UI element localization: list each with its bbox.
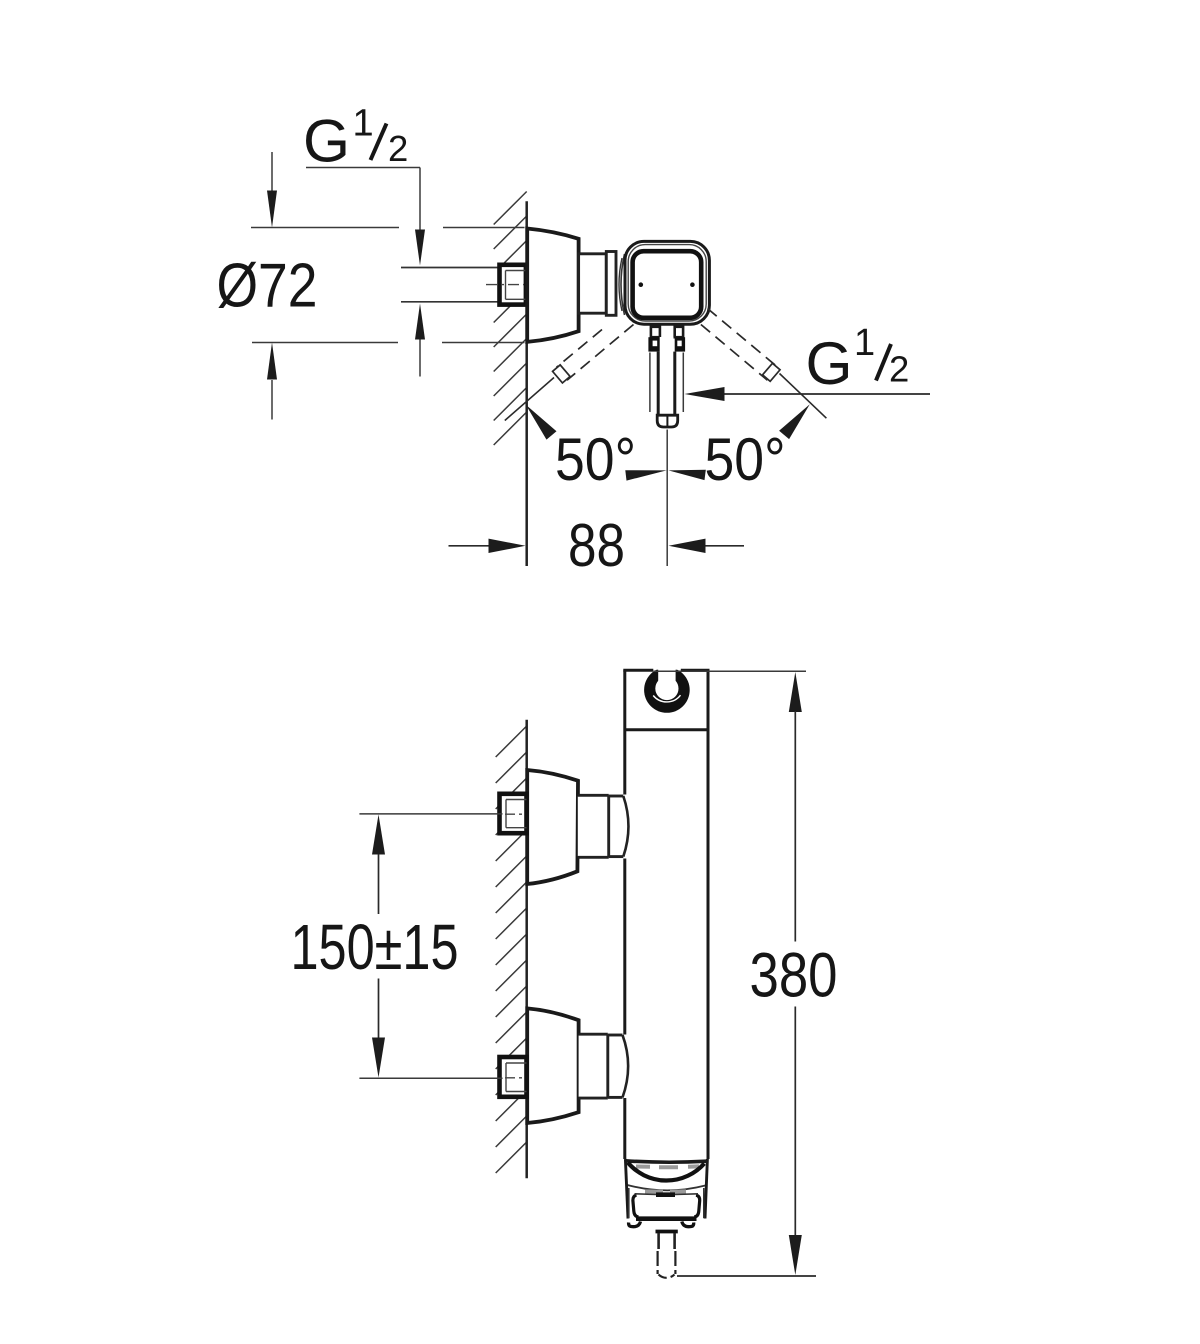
lower inlet centreline dashes <box>505 1077 525 1079</box>
lower inlet collar + spherical cap <box>608 1035 628 1097</box>
head face pivot dots <box>639 282 644 287</box>
svg-text:G: G <box>806 330 853 397</box>
right 50deg arc arrow at swing line <box>779 404 810 439</box>
svg-text:50°: 50° <box>705 426 786 493</box>
mixer body top edge <box>623 669 709 672</box>
dim150 vertical line + arrows <box>372 815 385 1078</box>
wall hatching (bottom view) <box>496 726 527 1173</box>
valve flange ring (top view) <box>606 252 616 316</box>
transition arcs behind head <box>621 254 625 315</box>
handle head outer shell (top view) <box>625 241 709 324</box>
outlet nipple (check valve) <box>656 1232 678 1278</box>
outlet tab left (top view) <box>651 327 660 337</box>
dia72 extension line top <box>251 227 399 229</box>
dim 88 line left + arrow <box>449 539 526 553</box>
outlet nut right block <box>675 337 685 351</box>
handle head face (bold inner square) <box>633 251 702 318</box>
spout corner hooks <box>629 1222 694 1227</box>
pipe thread union (top view) <box>500 265 527 305</box>
label G1/2 right <box>806 322 910 397</box>
centre axis line below outlet <box>666 430 668 567</box>
dia72 extension line bottom <box>252 342 398 344</box>
pipe centreline (top view) <box>486 284 524 286</box>
upper inlet neck <box>578 795 609 857</box>
left swing line solid tail <box>505 378 554 421</box>
handle head inner contour line <box>628 245 706 321</box>
dim380 extension line top <box>654 670 807 672</box>
lower inlet thread union <box>500 1057 527 1097</box>
body separation line below hook <box>625 728 708 731</box>
svg-text:G: G <box>303 108 350 175</box>
right swing line solid tail <box>780 374 827 419</box>
dim380 vertical line + arrows <box>789 672 802 1275</box>
wall line (bottom view) <box>525 720 528 1179</box>
svg-text:150±15: 150±15 <box>291 911 459 983</box>
upper inlet thread union <box>500 794 527 833</box>
mixer body left edge <box>623 670 626 1159</box>
outlet pipe (top view) <box>658 337 675 416</box>
left handle tick (rotated square) <box>553 365 570 383</box>
dim150 extension line top <box>359 813 502 815</box>
dim 88 line right + arrow <box>669 539 745 553</box>
dia72 arrow top <box>267 152 277 228</box>
lower inlet escutcheon cone <box>527 1008 578 1123</box>
shower hook ring <box>636 654 697 713</box>
right handle tick (rotated square) <box>763 363 780 381</box>
svg-text:1: 1 <box>353 103 374 145</box>
supply pipe (top view) <box>401 267 526 303</box>
G1/2 right leader line + arrow <box>685 387 931 401</box>
outlet nut left block <box>648 337 660 351</box>
upper inlet centreline dashes <box>505 813 525 815</box>
dim380 extension line bottom <box>677 1275 816 1277</box>
left swing pipe outline (double dashed, 50 deg) <box>557 330 603 368</box>
svg-text:2: 2 <box>889 349 909 390</box>
spout collar top <box>626 1161 707 1162</box>
valve neck (top view) <box>579 254 607 313</box>
spout shade dashes row2 <box>645 1189 686 1194</box>
outlet thread extension line right <box>682 353 684 413</box>
svg-text:1: 1 <box>854 322 875 364</box>
svg-text:380: 380 <box>750 941 838 1011</box>
outlet thread extension line left <box>649 353 651 413</box>
upper inlet escutcheon cone <box>527 770 578 884</box>
svg-text:88: 88 <box>568 512 625 579</box>
left 50deg arc arrow at centre line <box>625 470 666 480</box>
escutcheon cone (top view) <box>527 229 578 342</box>
outlet end cap <box>657 415 678 427</box>
label G1/2 top-left <box>303 103 408 175</box>
wall line (top view) <box>525 201 528 566</box>
wall hatching (top view) <box>494 192 527 446</box>
G1/2 leader underline <box>306 167 420 169</box>
dim150 extension line bottom <box>359 1077 502 1079</box>
left 50deg arc arrow at swing line <box>526 405 557 440</box>
spout smile arc <box>628 1163 705 1181</box>
lower inlet neck <box>579 1034 608 1098</box>
spout side walls <box>625 1159 707 1219</box>
mixer body right edge <box>707 670 710 1159</box>
right 50deg arc arrow at centre line <box>668 470 705 480</box>
spout lower thin arc <box>627 1185 705 1190</box>
svg-text:Ø72: Ø72 <box>217 252 318 321</box>
spout collar shade dashes <box>636 1164 699 1169</box>
svg-text:2: 2 <box>388 128 408 169</box>
right swing pipe outline (double dashed, 50 deg) <box>708 309 778 368</box>
dia72 arrow bottom <box>267 343 277 420</box>
upper inlet collar + spherical cap <box>609 796 629 857</box>
spout cup outline <box>633 1194 700 1219</box>
G1/2 leader vertical + arrows <box>415 168 425 377</box>
svg-text:50°: 50° <box>555 426 636 493</box>
outlet tab right (top view) <box>675 327 683 337</box>
